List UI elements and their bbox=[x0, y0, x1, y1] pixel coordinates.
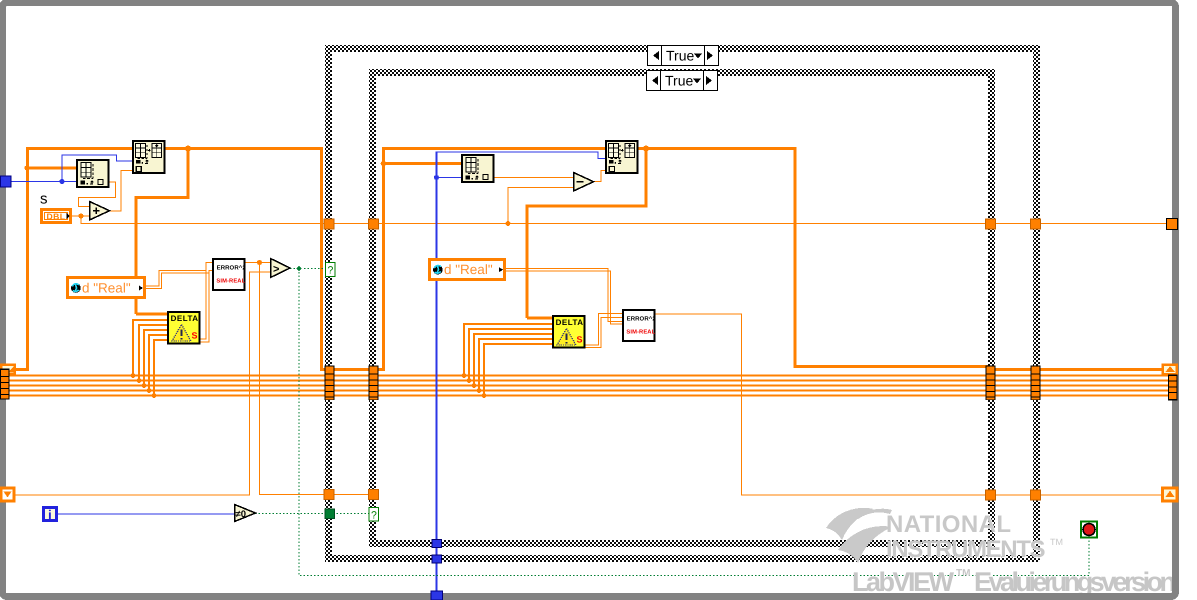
svg-text:Evaluierungsversion: Evaluierungsversion bbox=[974, 567, 1176, 597]
node ERROR^2 SIM-REAL inner bbox=[623, 310, 656, 341]
node global d "Real" inner bbox=[430, 260, 505, 280]
svg-text:d "Real": d "Real" bbox=[444, 262, 493, 277]
svg-text:DBL: DBL bbox=[47, 212, 66, 222]
wire bundle between right borders bbox=[993, 376, 1033, 396]
wire blue long vertical bbox=[436, 152, 438, 600]
svg-text:s: s bbox=[40, 191, 48, 208]
wire blue branch to inner Index bbox=[437, 177, 463, 179]
node global d "Real" left bbox=[68, 278, 145, 298]
wire inner Replace output to inner-right tunnel bbox=[638, 147, 988, 368]
wire array between case borders left bbox=[333, 368, 371, 371]
node not-equal-to-zero? bbox=[235, 505, 256, 522]
wire left ERROR inputs from DELTA bbox=[199, 263, 213, 343]
tunnel stack left edge (5 scalars) bbox=[0, 369, 10, 400]
svg-text:SIM-REAL: SIM-REAL bbox=[626, 328, 655, 335]
wire indexing tunnel to greater node lower input bbox=[13, 272, 270, 495]
wire branch down-left to left DELTA bbox=[136, 148, 190, 314]
case selector label inner "True" bbox=[647, 71, 718, 91]
node Replace Array Subset inner bbox=[606, 141, 638, 173]
svg-text:?: ? bbox=[371, 510, 377, 522]
wire boolean to stop conditional terminal bbox=[299, 269, 1089, 576]
tunnel stack outer-right border bbox=[1031, 366, 1041, 401]
tunnel s-wire inner-left bbox=[369, 219, 379, 229]
wire inner riser to inner Replace Array Subset bbox=[375, 147, 606, 371]
svg-text:DELTA: DELTA bbox=[171, 314, 199, 323]
tunnel s-wire outer-right bbox=[1031, 219, 1041, 229]
svg-text:≠0: ≠0 bbox=[236, 509, 247, 520]
wire risers into inner DELTA bbox=[464, 324, 553, 396]
node DELTA inner bbox=[553, 316, 585, 348]
wire s scalar long run bbox=[81, 216, 1172, 224]
svg-text:True: True bbox=[666, 48, 694, 64]
svg-text:SIM-REAL: SIM-REAL bbox=[216, 277, 245, 284]
node subtract bbox=[574, 173, 594, 192]
node greater? bbox=[271, 259, 291, 278]
wire blue i to not-equal-zero bbox=[58, 513, 234, 515]
svg-text:DELTA: DELTA bbox=[556, 318, 584, 327]
svg-text:TM: TM bbox=[1050, 537, 1063, 547]
tunnel s-wire inner-right bbox=[986, 219, 996, 229]
node DELTA left bbox=[168, 312, 200, 344]
wire branch to inner Index Array input bbox=[384, 162, 463, 165]
wire bundle left (5 scalars) bbox=[8, 376, 327, 396]
wire array from left shift register up to left Replace Array Subset bbox=[15, 147, 133, 371]
wire boolean greater output to outer selector bbox=[290, 268, 326, 270]
svg-text:>: > bbox=[273, 264, 279, 276]
wire add output to left Replace bbox=[109, 171, 133, 212]
terminal blue on left edge bbox=[1, 176, 12, 187]
svg-text:S: S bbox=[577, 335, 583, 345]
tunnels group bbox=[324, 219, 1041, 563]
wire bundle between left borders bbox=[333, 376, 371, 396]
wire inner DELTA outputs to inner ERROR bbox=[584, 314, 623, 348]
tunnel s-wire outer-left bbox=[324, 219, 334, 229]
tunnel stack inner-right border bbox=[986, 366, 996, 401]
tunnel blue inner-bottom bbox=[432, 540, 442, 548]
junction dots orange bbox=[24, 165, 29, 170]
svg-text:TM: TM bbox=[956, 568, 970, 579]
wire boolean not-equal-zero to inner selector bbox=[255, 513, 370, 515]
wire array between right borders bbox=[993, 368, 1033, 371]
tunnel stack inner-left border bbox=[369, 366, 379, 401]
tunnel bottom-run outer-left bbox=[324, 490, 334, 500]
WATERMARK-LAYER bbox=[826, 508, 1176, 597]
indexing tunnel right edge (up arrow) bbox=[1163, 488, 1178, 501]
selector terminal outer case [?] bbox=[326, 263, 336, 277]
wire branch to left Index Array input bbox=[27, 167, 77, 170]
selector terminal inner case [?] bbox=[369, 508, 379, 522]
tunnel stack outer-left border (array + 5 scalars) bbox=[325, 366, 335, 401]
tunnel stack right edge (4 cells) bbox=[1168, 375, 1178, 401]
junction dots bundle inner bbox=[462, 373, 467, 378]
svg-text:INSTRUMENTS: INSTRUMENTS bbox=[886, 536, 1046, 563]
node Index Array inner bbox=[462, 155, 494, 182]
terminal s-wire right edge bbox=[1167, 219, 1178, 230]
node ERROR^2 SIM-REAL left bbox=[213, 259, 246, 290]
wire left ERROR output to greater node bbox=[244, 262, 270, 264]
svg-text:LabVIEW: LabVIEW bbox=[852, 567, 955, 597]
case structure inner: border bbox=[369, 69, 995, 547]
indexing tunnel left edge (down arrow) bbox=[1, 488, 14, 501]
STRUCTURES-LAYER bbox=[324, 45, 1041, 563]
tunnel blue outer-bottom bbox=[432, 555, 442, 563]
wire s DBL to add node bbox=[72, 215, 89, 217]
shift register right (up arrow) bbox=[1162, 364, 1179, 376]
terminal blue bottom edge bbox=[431, 591, 443, 600]
svg-text:True: True bbox=[665, 73, 693, 89]
WIRES-LAYER bbox=[8, 146, 1172, 600]
svg-text:S: S bbox=[192, 331, 198, 341]
wire left Index output to add node bbox=[79, 182, 116, 207]
wire bundle to right edge stack bbox=[1038, 376, 1170, 396]
tunnel bottom-run inner-right bbox=[986, 490, 996, 500]
svg-text:i: i bbox=[48, 507, 52, 522]
wire left Replace output to outer case tunnel bbox=[165, 147, 327, 371]
shift register left bbox=[0, 364, 16, 376]
terminal s DBL bbox=[40, 208, 72, 224]
tunnel bottom-run inner-left bbox=[369, 490, 379, 500]
svg-text:?: ? bbox=[328, 265, 334, 277]
node Replace Array Subset left bbox=[133, 141, 165, 173]
svg-text:ERROR^2: ERROR^2 bbox=[627, 315, 657, 322]
wire left Real global double bbox=[146, 271, 209, 289]
wire inner ERROR output long path to right bbox=[654, 314, 1163, 495]
node Index Array left bbox=[77, 160, 109, 187]
tunnel bottom-run outer-right bbox=[1031, 490, 1041, 500]
svg-text:NATIONAL: NATIONAL bbox=[886, 511, 1012, 538]
node add bbox=[90, 202, 110, 221]
watermark eagle logo bbox=[826, 508, 892, 563]
wire inner Real global double bbox=[505, 269, 623, 325]
case structure outer: border bbox=[325, 45, 1040, 562]
wire inner Index output to subtract node bbox=[493, 177, 573, 179]
wire risers into left DELTA bbox=[133, 320, 168, 396]
wire blue branch to left Replace bbox=[62, 155, 133, 182]
junction diamond boolean bbox=[296, 266, 303, 272]
wire branch down-left to inner DELTA bbox=[527, 148, 648, 318]
case selector label outer "True" bbox=[648, 46, 719, 66]
conditional stop terminal bbox=[1081, 522, 1097, 538]
wire array to right shift register bbox=[1038, 368, 1163, 371]
wire branch down to bottom run bbox=[260, 263, 372, 495]
NODES-LAYER bbox=[40, 141, 1097, 538]
wire blue left terminal to left Index bbox=[11, 181, 77, 183]
junction dots blue bbox=[59, 179, 64, 184]
wire subtract output to inner Replace bbox=[593, 171, 606, 182]
junction dots bundle left bbox=[131, 373, 136, 378]
svg-text:ERROR^2: ERROR^2 bbox=[217, 264, 247, 271]
terminal i iteration bbox=[44, 507, 57, 522]
svg-text:d "Real": d "Real" bbox=[82, 281, 131, 296]
wire riser to inner subtract input bbox=[508, 188, 573, 224]
tunnel boolean outer-left (solid green) bbox=[325, 509, 335, 519]
wire bundle inside inner case bbox=[375, 376, 988, 396]
